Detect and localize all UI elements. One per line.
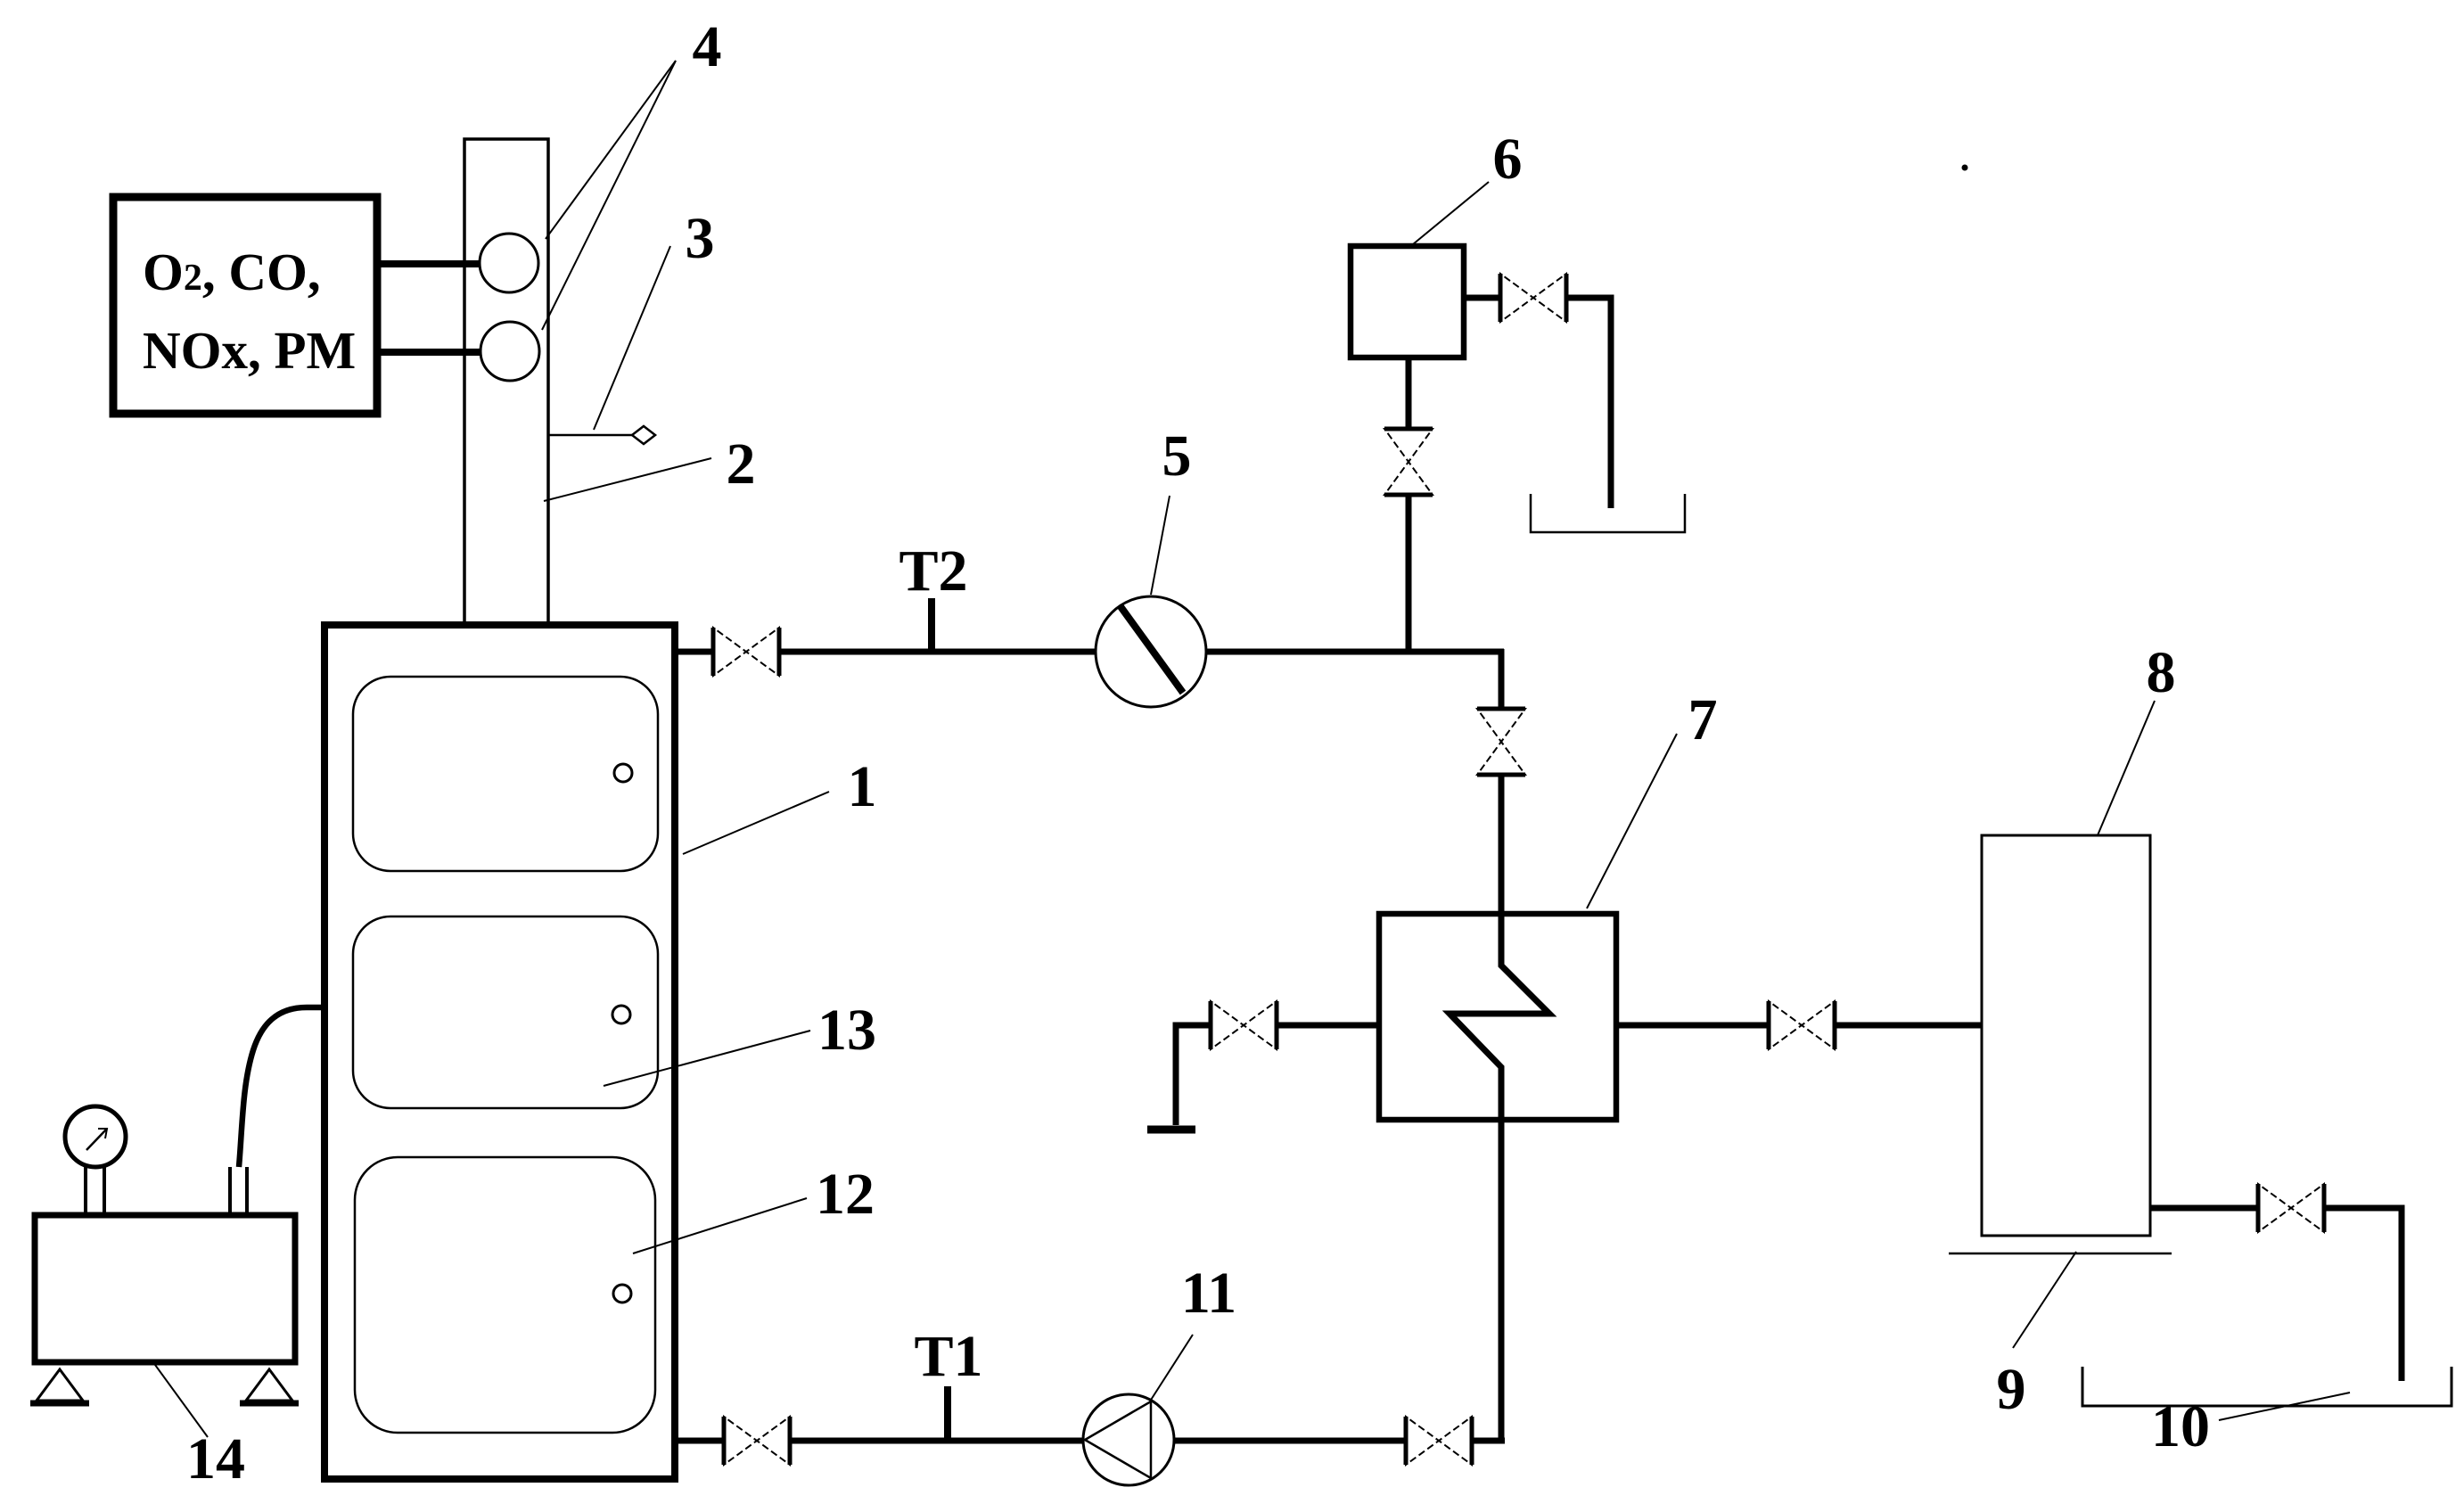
svg-text:8: 8 (2147, 640, 2176, 705)
door handle (612, 1006, 630, 1023)
riser pipe box6 to valve (1406, 357, 1412, 430)
pressure device 14 (35, 1215, 295, 1362)
expansion vessel 6 (1351, 246, 1464, 357)
leader label 3 (594, 246, 670, 430)
right foot (246, 1369, 292, 1401)
leader label 2 (544, 458, 711, 501)
svg-text:NOx, PM: NOx, PM (143, 321, 356, 380)
riser pipe valve to main (1406, 494, 1412, 654)
leader label 6 (1413, 182, 1489, 244)
heat exchanger 7 (1379, 914, 1616, 1120)
bottom pipe valve to corner (1470, 1438, 1505, 1444)
svg-text:11: 11 (1181, 1261, 1236, 1326)
door handle (613, 1285, 631, 1302)
svg-text:14: 14 (186, 1426, 245, 1491)
storage tank 8 (1982, 835, 2150, 1236)
leader label 14 (134, 1335, 208, 1437)
HX right pipe to valve (1616, 1023, 1770, 1029)
pump 11 (1083, 1394, 1174, 1485)
svg-text:T1: T1 (914, 1324, 982, 1389)
valve under vessel 6 (1384, 429, 1433, 495)
leader label 1 (683, 792, 829, 854)
T1 sensor tick (944, 1386, 951, 1443)
boiler 1 (324, 625, 675, 1479)
door 13 middle (353, 916, 658, 1108)
drop pipe valve to HX (1499, 776, 1505, 916)
svg-text:9: 9 (1997, 1357, 2026, 1422)
pressure gauge (65, 1106, 126, 1167)
door 12 bottom (355, 1157, 655, 1433)
valve left of HX (1211, 1001, 1277, 1049)
hose to boiler (239, 1007, 324, 1167)
chimney 2 (464, 139, 548, 629)
svg-text:10: 10 (2151, 1394, 2210, 1459)
HX left pipe valve to box (1276, 1023, 1381, 1029)
valve right of vessel 6 (1500, 274, 1566, 322)
drain cup top (1531, 494, 1685, 532)
svg-text:1: 1 (848, 754, 877, 819)
leader label 8 (2080, 701, 2155, 877)
valve tank outlet (2258, 1184, 2324, 1232)
valve pump to HX (1406, 1417, 1472, 1465)
analyzer wire upper (377, 260, 481, 267)
leader label 4 line b (542, 61, 676, 330)
HX left pipe to valve (1176, 1025, 1211, 1125)
valve HX to tank (1769, 1001, 1835, 1049)
svg-text:6: 6 (1493, 127, 1523, 192)
valve boiler return (724, 1417, 790, 1465)
sampling port 4 upper (480, 234, 538, 292)
stray dot (1962, 165, 1968, 171)
svg-text:12: 12 (816, 1162, 875, 1227)
probe 3 line (549, 434, 632, 437)
tank outlet pipe (2150, 1205, 2260, 1212)
leader label 11 (1146, 1335, 1193, 1407)
svg-text:T2: T2 (899, 538, 967, 604)
leader label 4 line a (546, 61, 676, 239)
leader label 12 (633, 1198, 807, 1253)
sampling port 4 lower (480, 322, 539, 381)
T2 sensor tick (928, 598, 935, 654)
bottom pipe boiler to valve (675, 1438, 726, 1444)
leader label 13 (604, 1031, 810, 1086)
drain container 10 (2082, 1367, 2452, 1406)
svg-text:13: 13 (817, 998, 876, 1063)
flow meter diagonal (1120, 605, 1183, 693)
leader label 7 (1587, 734, 1677, 908)
flow meter 5 (1096, 596, 1206, 707)
leader label 10 (2219, 1393, 2350, 1420)
drop pipe main to valve (1499, 649, 1505, 708)
outlet pipe corner to drain (2322, 1208, 2402, 1381)
gas analyzer box (113, 197, 377, 414)
tank base 9 (1949, 1253, 2172, 1255)
outlet stub (228, 1167, 232, 1215)
probe 3 diamond (632, 426, 655, 444)
valve V1 boiler outlet (713, 628, 779, 676)
analyzer wire lower (377, 349, 481, 356)
leader label 9 (2013, 1252, 2076, 1348)
leader label 5 (1151, 496, 1170, 595)
svg-text:4: 4 (693, 14, 722, 79)
pipe valve to drain with corner (1565, 298, 1611, 508)
bottom pipe valve to pump (788, 1438, 1085, 1444)
pipe valve to tank 8 (1833, 1023, 1983, 1029)
top pipe meter to corner (1205, 649, 1504, 655)
top pipe boiler to valve (675, 649, 714, 655)
svg-text:O2, CO,: O2, CO, (143, 242, 321, 301)
gauge needle (86, 1129, 107, 1150)
svg-text:7: 7 (1688, 687, 1718, 752)
svg-text:2: 2 (727, 431, 756, 497)
gauge stem (84, 1167, 87, 1215)
HX zigzag coil (1450, 911, 1549, 1443)
door 13 top (353, 677, 658, 871)
top pipe valve to meter (778, 649, 1096, 655)
valve above HX (1477, 709, 1525, 775)
door handle (614, 764, 632, 782)
svg-text:3: 3 (686, 206, 715, 271)
drain T bar (1147, 1126, 1195, 1134)
svg-text:5: 5 (1162, 423, 1192, 489)
pump triangle (1085, 1401, 1151, 1478)
bottom pipe pump to valve (1172, 1438, 1408, 1444)
pipe box6 to right valve (1464, 295, 1502, 301)
left foot (37, 1369, 83, 1401)
